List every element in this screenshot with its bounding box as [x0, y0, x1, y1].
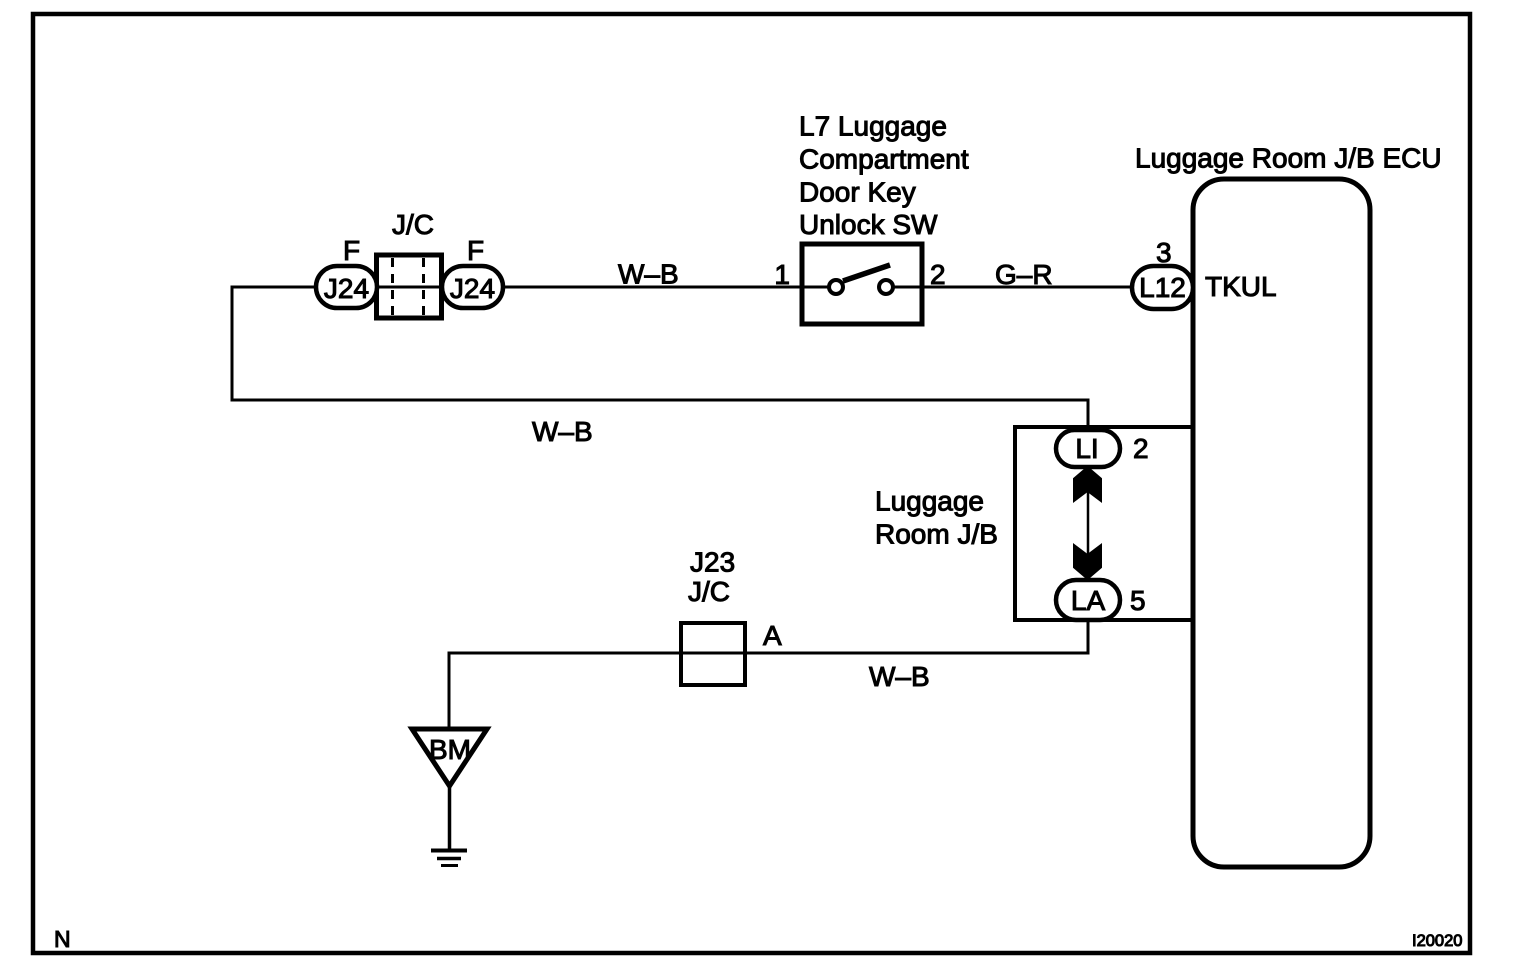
connector LA	[1056, 580, 1120, 620]
svg-text:F: F	[343, 235, 360, 266]
svg-text:A: A	[763, 620, 782, 651]
svg-text:LI: LI	[1075, 433, 1098, 464]
switch contact circle left	[829, 280, 843, 294]
svg-text:BM: BM	[429, 734, 471, 765]
wire: G-R run from switch pin 2 to L12	[922, 286, 1165, 289]
ground symbol	[431, 851, 467, 866]
svg-text:F: F	[467, 235, 484, 266]
svg-text:Door Key: Door Key	[799, 177, 916, 208]
svg-text:Room J/B: Room J/B	[875, 519, 998, 550]
J/C internal dashed pin lines	[393, 258, 424, 315]
wire: from LA down and left through J23 to BM	[449, 618, 1088, 731]
junction connector J23 box	[681, 623, 745, 685]
Luggage Room J/B box	[1015, 427, 1193, 620]
arrowhead down	[1074, 544, 1102, 580]
svg-text:J23: J23	[690, 547, 735, 578]
switch L7 box	[802, 244, 922, 324]
connector L12	[1132, 266, 1193, 309]
junction connector J/C box (top)	[377, 255, 442, 318]
svg-text:Luggage Room J/B ECU: Luggage Room J/B ECU	[1135, 143, 1442, 174]
svg-text:TKUL: TKUL	[1205, 271, 1277, 302]
svg-text:LA: LA	[1071, 585, 1106, 616]
connector J24 right	[442, 266, 503, 308]
switch blade	[843, 265, 890, 281]
svg-text:G–R: G–R	[995, 259, 1053, 290]
svg-text:J/C: J/C	[688, 576, 730, 607]
wire through J/C box	[377, 286, 442, 289]
connector LI	[1056, 430, 1120, 467]
svg-text:Luggage: Luggage	[875, 486, 984, 517]
connector J24 left	[316, 266, 377, 308]
svg-text:L12: L12	[1139, 272, 1186, 303]
svg-text:2: 2	[1133, 433, 1149, 464]
svg-text:J24: J24	[324, 273, 369, 304]
svg-text:N: N	[54, 926, 71, 952]
svg-text:W–B: W–B	[869, 661, 930, 692]
svg-text:2: 2	[930, 259, 946, 290]
svg-text:3: 3	[1156, 237, 1172, 268]
svg-text:J/C: J/C	[392, 209, 434, 240]
wire: arrow shaft between LI and LA	[1087, 490, 1090, 558]
svg-text:5: 5	[1130, 585, 1146, 616]
svg-text:Compartment: Compartment	[799, 144, 969, 175]
svg-text:W–B: W–B	[618, 259, 679, 290]
wire: top W-B run from left riser to switch	[232, 287, 1088, 450]
node BM stem wire	[448, 783, 452, 850]
svg-text:I20020: I20020	[1412, 932, 1462, 950]
svg-text:L7 Luggage: L7 Luggage	[799, 111, 947, 142]
arrowhead up	[1074, 467, 1102, 503]
svg-text:J24: J24	[450, 273, 495, 304]
switch internal wire stubs	[802, 286, 922, 289]
svg-text:Unlock SW: Unlock SW	[799, 209, 938, 240]
svg-text:1: 1	[774, 259, 790, 290]
ECU U1 Luggage Room J/B ECU body	[1193, 179, 1370, 867]
svg-text:W–B: W–B	[532, 416, 593, 447]
ground triangle BM	[412, 729, 487, 786]
switch contact circle right	[879, 280, 893, 294]
